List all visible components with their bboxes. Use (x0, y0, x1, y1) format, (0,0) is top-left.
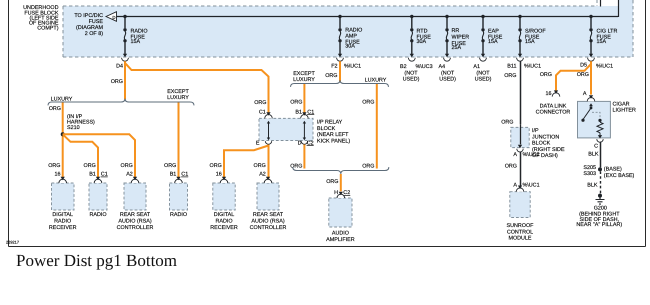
svg-text:25A: 25A (452, 45, 462, 51)
svg-text:BLOCK: BLOCK (532, 141, 551, 147)
svg-text:ORG: ORG (254, 163, 266, 169)
svg-text:ORG: ORG (164, 163, 176, 169)
svg-text:LIGHTER: LIGHTER (613, 107, 636, 113)
svg-text:AUDIO (RSA): AUDIO (RSA) (118, 219, 151, 225)
svg-text:COMPT): COMPT) (37, 26, 58, 32)
svg-text:RECEIVER: RECEIVER (49, 225, 77, 231)
svg-text:C2: C2 (343, 190, 350, 196)
svg-text:D: D (298, 140, 302, 146)
svg-text:C1: C1 (259, 109, 266, 115)
svg-text:I/P RELAY: I/P RELAY (317, 120, 343, 126)
svg-text:%\UC2: %\UC2 (523, 152, 540, 158)
svg-text:16: 16 (546, 91, 552, 97)
svg-text:A4: A4 (439, 64, 446, 70)
svg-text:ORG: ORG (49, 106, 61, 112)
svg-text:RADIO: RADIO (215, 219, 232, 225)
svg-text:BLK: BLK (587, 182, 598, 188)
svg-text:ORG: ORG (501, 120, 513, 126)
svg-text:A: A (583, 91, 587, 97)
svg-text:JUNCTION: JUNCTION (532, 134, 559, 140)
svg-text:KICK PANEL): KICK PANEL) (317, 138, 350, 144)
svg-text:CONNECTOR: CONNECTOR (536, 110, 571, 116)
svg-text:(EXC BASE): (EXC BASE) (604, 173, 635, 179)
svg-text:ORG: ORG (362, 163, 374, 169)
svg-text:LUXURY: LUXURY (365, 77, 387, 83)
svg-text:B11: B11 (507, 63, 516, 69)
svg-text:BLOCK: BLOCK (317, 126, 336, 132)
svg-text:ORG: ORG (290, 99, 302, 105)
svg-text:AUDIO: AUDIO (332, 230, 349, 236)
svg-text:RADIO: RADIO (54, 219, 71, 225)
svg-text:ORG: ORG (325, 73, 337, 79)
svg-text:D4: D4 (116, 63, 123, 69)
svg-text:RTD: RTD (417, 28, 428, 34)
svg-text:B1: B1 (170, 172, 177, 178)
svg-text:A1: A1 (473, 64, 480, 70)
svg-text:DIGITAL: DIGITAL (214, 212, 235, 218)
svg-text:LUXURY: LUXURY (167, 95, 189, 101)
svg-text:C1: C1 (101, 172, 108, 178)
svg-text:15A: 15A (597, 39, 607, 45)
svg-text:LUXURY: LUXURY (51, 96, 73, 102)
svg-text:CONTROLLER: CONTROLLER (117, 225, 154, 231)
svg-text:ORG: ORG (504, 73, 516, 79)
svg-text:ORG: ORG (48, 163, 60, 169)
svg-text:RADIO: RADIO (131, 28, 148, 34)
svg-text:REAR SEAT: REAR SEAT (120, 212, 151, 218)
svg-text:USED): USED) (439, 76, 456, 82)
svg-text:ORG: ORG (326, 179, 338, 185)
svg-text:2 OF 8): 2 OF 8) (85, 31, 103, 37)
svg-text:SUNROOF: SUNROOF (507, 223, 535, 229)
svg-text:CIG LTR: CIG LTR (597, 28, 618, 34)
svg-text:MODULE: MODULE (508, 236, 531, 242)
svg-text:H: H (334, 190, 338, 196)
svg-text:DIGITAL: DIGITAL (52, 212, 73, 218)
svg-text:%\UC3: %\UC3 (416, 64, 433, 70)
svg-text:RECEIVER: RECEIVER (210, 225, 238, 231)
svg-text:B1: B1 (89, 172, 96, 178)
svg-text:(BASE): (BASE) (604, 167, 622, 173)
svg-text:B2: B2 (400, 64, 407, 70)
svg-text:ORG: ORG (121, 163, 133, 169)
svg-text:AMPLIFIER: AMPLIFIER (326, 237, 355, 243)
svg-text:USED): USED) (475, 76, 492, 82)
svg-text:BLK: BLK (588, 152, 599, 158)
svg-text:C: C (594, 143, 598, 149)
svg-text:ORG: ORG (254, 100, 266, 106)
svg-text:A: A (513, 182, 517, 188)
svg-text:CONTROL: CONTROL (507, 229, 533, 235)
svg-text:%\UC1: %\UC1 (596, 63, 613, 69)
svg-text:E: E (256, 140, 260, 146)
svg-text:(NEAR LEFT: (NEAR LEFT (317, 132, 349, 138)
svg-text:RR: RR (452, 28, 460, 34)
svg-text:S210: S210 (67, 125, 80, 131)
svg-text:%\UC1: %\UC1 (523, 182, 540, 188)
svg-text:A: A (513, 152, 517, 158)
svg-text:RADIO: RADIO (89, 212, 106, 218)
svg-text:ORG: ORG (84, 163, 96, 169)
svg-text:EAP: EAP (488, 28, 499, 34)
svg-text:15A: 15A (525, 39, 535, 45)
svg-text:16: 16 (55, 172, 61, 178)
svg-text:C2: C2 (307, 140, 314, 146)
svg-text:A2: A2 (126, 172, 133, 178)
svg-text:C1: C1 (307, 109, 314, 115)
svg-text:ORG: ORG (111, 79, 123, 85)
svg-text:USED): USED) (403, 76, 420, 82)
svg-text:NEAR "A" PILLAR): NEAR "A" PILLAR) (576, 222, 622, 228)
svg-text:LUXURY: LUXURY (293, 77, 315, 83)
svg-text:S/ROOF: S/ROOF (525, 28, 546, 34)
svg-text:D: D (112, 15, 115, 20)
svg-text:15A: 15A (488, 39, 498, 45)
svg-text:B1: B1 (295, 109, 302, 115)
svg-text:229217: 229217 (6, 239, 19, 244)
svg-text:F2: F2 (331, 63, 337, 69)
svg-text:ORG: ORG (505, 163, 517, 169)
svg-text:%\UC1: %\UC1 (524, 63, 541, 69)
svg-text:AUDIO (RSA): AUDIO (RSA) (251, 219, 284, 225)
svg-text:ORG: ORG (362, 99, 374, 105)
svg-text:ORG: ORG (210, 163, 222, 169)
svg-text:30A: 30A (417, 39, 427, 45)
svg-text:S303: S303 (583, 171, 596, 177)
svg-text:16: 16 (216, 172, 222, 178)
svg-text:RADIO: RADIO (170, 212, 187, 218)
svg-text:C1: C1 (181, 172, 188, 178)
svg-text:D5: D5 (580, 63, 587, 69)
svg-text:I/P: I/P (532, 128, 539, 134)
svg-text:%\UC1: %\UC1 (344, 63, 361, 69)
svg-text:WIPER: WIPER (452, 35, 470, 41)
svg-text:30A: 30A (345, 44, 355, 50)
svg-text:A2: A2 (259, 172, 266, 178)
svg-text:ORG: ORG (577, 72, 589, 78)
svg-text:CONTROLLER: CONTROLLER (250, 225, 287, 231)
svg-text:REAR SEAT: REAR SEAT (253, 212, 284, 218)
svg-text:ORG: ORG (540, 72, 552, 78)
svg-text:ORG: ORG (290, 163, 302, 169)
svg-text:15A: 15A (131, 39, 141, 45)
svg-text:Power Dist pg1 Bottom: Power Dist pg1 Bottom (16, 251, 177, 270)
